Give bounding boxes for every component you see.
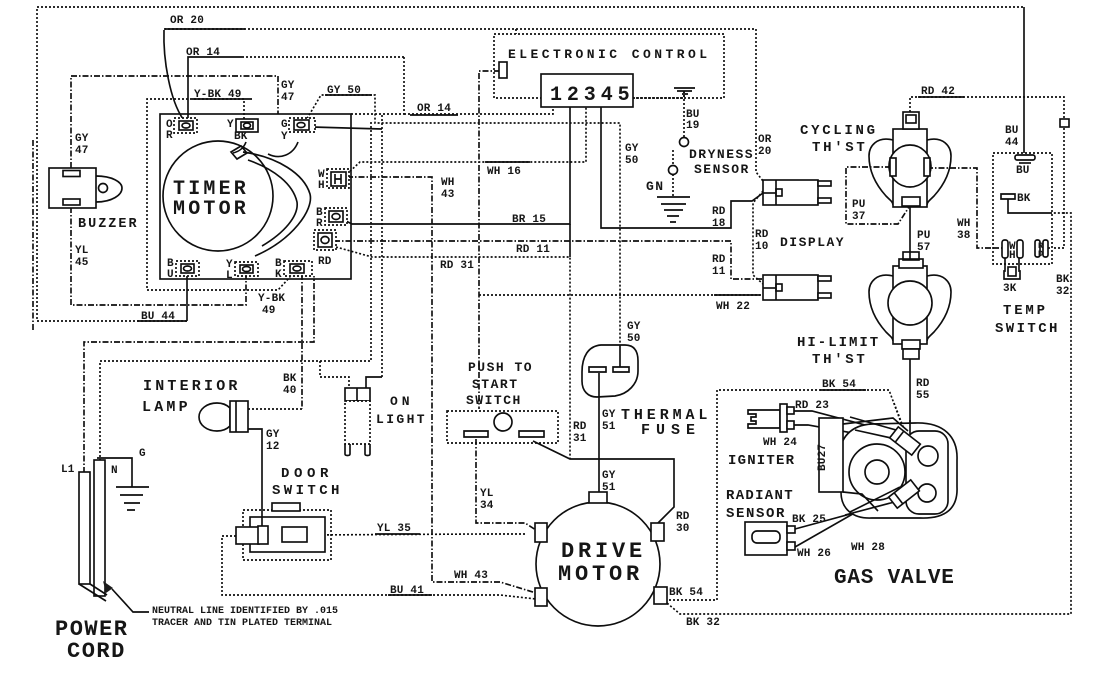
wire BK 25 radiant sensor to gas valve xyxy=(795,500,902,529)
terminal O-R xyxy=(166,118,197,142)
cycling thermostat xyxy=(800,112,951,207)
svg-text:GN: GN xyxy=(646,179,665,194)
svg-text:WH 26: WH 26 xyxy=(797,548,831,560)
svg-text:TH'ST: TH'ST xyxy=(812,140,868,156)
gas valve terminal lower xyxy=(889,480,920,508)
svg-text:BK 25: BK 25 xyxy=(792,514,826,526)
wire GY 51 fuse to motor xyxy=(598,371,600,493)
terminal Y-BK xyxy=(227,119,258,143)
hi-limit thermostat xyxy=(797,252,951,368)
svg-text:SENSOR: SENSOR xyxy=(726,506,786,522)
svg-text:GY: GY xyxy=(75,133,89,145)
temp switch xyxy=(993,153,1060,337)
svg-text:G: G xyxy=(281,119,288,131)
wire RD 55 hi-limit to gas valve xyxy=(909,358,911,431)
wire GY 47 from buzzer top xyxy=(71,76,278,168)
svg-text:BU27: BU27 xyxy=(817,444,829,471)
svg-text:Y-BK: Y-BK xyxy=(258,293,285,305)
svg-text:RD: RD xyxy=(712,206,726,218)
svg-text:MOTOR: MOTOR xyxy=(558,562,643,587)
terminal B-K xyxy=(275,258,312,281)
svg-text:DRIVE: DRIVE xyxy=(561,539,646,564)
svg-text:DISPLAY: DISPLAY xyxy=(780,235,845,250)
wire to on-light right riser xyxy=(381,115,383,377)
wire RD 11 timer to display xyxy=(334,241,763,279)
BU27 label box xyxy=(819,418,843,492)
svg-text:19: 19 xyxy=(686,120,700,132)
wire PU 37 cycling xyxy=(846,167,909,224)
svg-text:OR 20: OR 20 xyxy=(170,15,204,27)
wire YL 35 door switch to motor xyxy=(307,534,525,535)
svg-text:L: L xyxy=(226,270,233,282)
wire RD 55 into valve xyxy=(909,420,911,434)
svg-text:RD: RD xyxy=(573,421,587,433)
svg-text:31: 31 xyxy=(573,433,587,445)
svg-text:10: 10 xyxy=(755,241,769,253)
svg-text:SENSOR: SENSOR xyxy=(694,162,750,177)
wire BR 15 timer to pin 2 xyxy=(344,107,570,224)
svg-text:49: 49 xyxy=(262,305,276,317)
svg-text:47: 47 xyxy=(281,92,295,104)
svg-text:TH'ST: TH'ST xyxy=(812,352,868,368)
drive motor xyxy=(535,492,667,626)
wire RD 10 display jumper xyxy=(753,191,763,284)
wire WH 16 timer to pin 3 xyxy=(347,107,586,174)
svg-text:GY: GY xyxy=(266,429,280,441)
svg-text:RD 31: RD 31 xyxy=(440,260,474,272)
wire YL 34 push-start to motor xyxy=(476,439,536,530)
radiant sensor xyxy=(726,488,795,555)
svg-text:IGNITER: IGNITER xyxy=(728,453,795,469)
svg-text:WH: WH xyxy=(957,218,971,230)
svg-text:NEUTRAL LINE IDENTIFIED BY .01: NEUTRAL LINE IDENTIFIED BY .015 xyxy=(152,606,338,617)
electronic control pins box xyxy=(541,74,633,107)
svg-text:LAMP: LAMP xyxy=(142,399,191,416)
wire RD 42 into R-D pins xyxy=(1048,247,1052,249)
svg-text:D: D xyxy=(1038,249,1043,259)
svg-text:H: H xyxy=(1009,250,1016,262)
svg-text:OR: OR xyxy=(758,134,772,146)
svg-text:YL: YL xyxy=(480,488,494,500)
svg-text:RD 23: RD 23 xyxy=(795,400,829,412)
wire OR 20 top run xyxy=(164,29,763,181)
wire GY 51 inside fuse xyxy=(598,373,600,397)
wire OR 20 riser into electronic control xyxy=(515,29,517,34)
svg-text:RD: RD xyxy=(318,256,332,268)
terminal B-U xyxy=(167,258,199,281)
wire GY 50 from timer G-Y terminal xyxy=(305,95,620,368)
wire BU 41 door switch to motor xyxy=(222,536,536,599)
wire RD 18 pin 4 to display xyxy=(601,107,763,228)
svg-text:MOTOR: MOTOR xyxy=(173,198,249,221)
temp switch 3K terminal xyxy=(1004,258,1020,279)
terminal G-Y xyxy=(281,118,315,143)
timer cam follower xyxy=(231,146,247,159)
gas valve coil housing lines xyxy=(843,418,908,431)
timer wiper curve from Y-BK xyxy=(233,142,246,153)
wire OR 14 riser from timer xyxy=(188,57,242,119)
svg-text:BU: BU xyxy=(1016,165,1030,177)
svg-text:DRYNESS: DRYNESS xyxy=(689,147,754,162)
wire RD 30 push-start to drive motor xyxy=(533,441,674,523)
wire RD 31 timer to push-start xyxy=(336,247,570,459)
timer cam xyxy=(243,152,310,256)
svg-text:3K: 3K xyxy=(1003,283,1017,295)
display connector upper xyxy=(763,180,831,205)
wire RD 23 igniter to gas valve xyxy=(794,411,899,434)
on light xyxy=(345,388,427,456)
svg-text:BUZZER: BUZZER xyxy=(78,217,139,232)
svg-text:LIGHT: LIGHT xyxy=(376,412,427,427)
gas valve terminal upper xyxy=(890,427,921,455)
svg-text:OR 14: OR 14 xyxy=(417,103,451,115)
push to start switch xyxy=(447,360,558,443)
svg-text:WH 16: WH 16 xyxy=(487,166,521,178)
wire GY 50 inside fuse xyxy=(619,345,621,367)
wire junction pin2 riser xyxy=(569,224,571,257)
interior lamp xyxy=(142,378,248,432)
svg-text:20: 20 xyxy=(758,146,772,158)
dryness sensor xyxy=(646,88,754,196)
svg-text:32: 32 xyxy=(1056,286,1070,298)
svg-text:50: 50 xyxy=(625,155,639,167)
svg-text:L1: L1 xyxy=(61,464,75,476)
svg-text:HI-LIMIT: HI-LIMIT xyxy=(797,335,880,351)
svg-text:WH: WH xyxy=(441,177,455,189)
svg-text:WH 43: WH 43 xyxy=(454,570,488,582)
thermal fuse xyxy=(582,345,711,439)
svg-text:RD: RD xyxy=(712,254,726,266)
display connector lower xyxy=(763,275,831,300)
svg-text:CYCLING: CYCLING xyxy=(800,123,878,139)
electronic control left pin xyxy=(499,62,507,78)
gas valve xyxy=(817,403,957,590)
wire WH 38 into W-H pins xyxy=(993,247,1002,249)
terminal W-H xyxy=(318,169,349,192)
wire left dash-dot stub xyxy=(32,140,34,330)
svg-text:40: 40 xyxy=(283,385,297,397)
svg-text:SWITCH: SWITCH xyxy=(995,321,1060,337)
svg-text:ON: ON xyxy=(390,394,414,409)
svg-text:55: 55 xyxy=(916,390,930,402)
power cord xyxy=(55,448,338,664)
wire RD 23 over valve xyxy=(850,417,903,432)
svg-text:WH 28: WH 28 xyxy=(851,542,885,554)
wire BK 32 motor to temp switch xyxy=(661,199,1071,614)
wire RD 42 xyxy=(910,97,1064,248)
svg-text:BK: BK xyxy=(1017,193,1031,205)
wire WH 24 over valve xyxy=(855,430,900,440)
wire BK 54 into valve xyxy=(894,403,904,429)
wire pin 5 to dryness sensor xyxy=(633,91,684,98)
svg-text:R: R xyxy=(166,130,173,142)
timer wiper curve from G-Y xyxy=(268,142,298,157)
wire WH 26 over valve xyxy=(850,487,900,512)
svg-text:BR 15: BR 15 xyxy=(512,214,546,226)
wire WH 38 cycling to temp switch xyxy=(927,168,1002,248)
igniter xyxy=(728,404,795,469)
svg-text:RD 11: RD 11 xyxy=(516,244,550,256)
temp switch W-H pins xyxy=(1002,240,1008,258)
svg-text:GY: GY xyxy=(281,80,295,92)
svg-text:N: N xyxy=(111,465,118,477)
svg-text:FUSE: FUSE xyxy=(641,422,701,439)
svg-text:BK 32: BK 32 xyxy=(686,617,720,629)
buzzer xyxy=(49,168,139,232)
svg-text:H: H xyxy=(318,180,325,192)
svg-text:RADIANT: RADIANT xyxy=(726,488,794,504)
svg-text:BK: BK xyxy=(283,373,297,385)
terminal RD xyxy=(314,230,336,268)
svg-text:TRACER AND TIN PLATED TERMINAL: TRACER AND TIN PLATED TERMINAL xyxy=(152,618,332,629)
svg-text:WH 22: WH 22 xyxy=(716,301,750,313)
wire L1 riser xyxy=(84,276,314,473)
svg-text:12345: 12345 xyxy=(550,84,635,107)
wire Y-BK 49 dashed loop around timer xyxy=(147,99,290,290)
svg-text:GY: GY xyxy=(625,143,639,155)
wire WH 24 igniter to gas valve xyxy=(794,425,897,441)
svg-text:PUSH TO: PUSH TO xyxy=(468,360,533,375)
wire on-light left feed xyxy=(320,361,349,388)
svg-text:RD: RD xyxy=(676,511,690,523)
wire BU 44 timer B/U riser xyxy=(186,274,188,321)
wire WH 43 timer to drive motor xyxy=(347,177,536,593)
wire BK 25 over valve xyxy=(845,500,902,515)
svg-text:18: 18 xyxy=(712,218,726,230)
svg-text:ELECTRONIC CONTROL: ELECTRONIC CONTROL xyxy=(508,47,711,62)
svg-text:43: 43 xyxy=(441,189,455,201)
wire from electronic control left pin down xyxy=(479,71,500,409)
svg-text:GY: GY xyxy=(627,321,641,333)
svg-text:BK 54: BK 54 xyxy=(669,587,703,599)
svg-text:WH 24: WH 24 xyxy=(763,437,797,449)
svg-text:11: 11 xyxy=(712,266,726,278)
svg-text:45: 45 xyxy=(75,257,89,269)
wire BK inside temp switch xyxy=(1008,199,1052,213)
svg-text:TEMP: TEMP xyxy=(1003,303,1048,319)
svg-text:GAS VALVE: GAS VALVE xyxy=(834,567,955,590)
svg-text:OR 14: OR 14 xyxy=(186,47,220,59)
border outer dotted frame top and left xyxy=(33,7,1024,330)
svg-text:RD: RD xyxy=(916,378,930,390)
svg-text:SWITCH: SWITCH xyxy=(466,393,522,408)
wire stub timer box to riser xyxy=(312,127,382,129)
wire WH 26 radiant sensor to gas valve xyxy=(795,487,900,547)
svg-text:K: K xyxy=(275,269,282,281)
right edge connector tick xyxy=(1060,119,1069,127)
wire GY 12 into switch xyxy=(261,517,263,528)
svg-text:Y: Y xyxy=(227,119,234,131)
svg-text:CORD: CORD xyxy=(67,639,126,664)
wire lamp to BK40 xyxy=(248,408,302,410)
svg-text:Y: Y xyxy=(281,131,288,143)
wire WH 22 to display lower xyxy=(479,294,763,296)
wire BU 44 right riser to temp switch xyxy=(1023,7,1025,156)
svg-text:START: START xyxy=(472,377,519,392)
svg-text:34: 34 xyxy=(480,500,494,512)
wire BK 40 lamp riser xyxy=(301,274,303,409)
terminal B-R xyxy=(316,207,347,230)
wire N riser xyxy=(100,122,371,461)
svg-text:R: R xyxy=(316,218,323,230)
svg-text:57: 57 xyxy=(917,242,931,254)
svg-text:51: 51 xyxy=(602,421,616,433)
temp switch R-D pins xyxy=(1035,240,1040,257)
timer motor circle xyxy=(163,141,273,251)
terminal Y-L xyxy=(226,259,258,282)
svg-text:12: 12 xyxy=(266,441,280,453)
svg-text:U: U xyxy=(167,269,174,281)
wire on-light right feed xyxy=(366,377,382,388)
electronic control U1 xyxy=(494,34,724,107)
svg-text:RD: RD xyxy=(755,229,769,241)
svg-text:YL: YL xyxy=(75,245,89,257)
svg-text:PU: PU xyxy=(852,199,866,211)
wire BK 54 motor to gas valve xyxy=(665,390,903,600)
ground GN xyxy=(657,197,690,222)
svg-text:PU: PU xyxy=(917,230,931,242)
svg-text:30: 30 xyxy=(676,523,690,535)
wire YL 45 buzzer to timer Y-L xyxy=(71,207,246,305)
svg-text:SWITCH: SWITCH xyxy=(272,483,343,499)
svg-text:47: 47 xyxy=(75,145,89,157)
svg-text:BU: BU xyxy=(1005,125,1019,137)
timer motor box xyxy=(160,114,351,279)
door switch xyxy=(236,466,343,560)
wire OR 14 run to pin 1 xyxy=(351,57,404,114)
svg-text:DOOR: DOOR xyxy=(281,466,333,482)
svg-text:G: G xyxy=(139,448,146,460)
wire GY 12 lamp to door switch xyxy=(248,429,262,530)
svg-text:44: 44 xyxy=(1005,137,1019,149)
svg-text:INTERIOR: INTERIOR xyxy=(143,378,241,395)
svg-text:37: 37 xyxy=(852,211,866,223)
svg-text:51: 51 xyxy=(602,482,616,494)
svg-text:38: 38 xyxy=(957,230,971,242)
svg-text:50: 50 xyxy=(627,333,641,345)
svg-text:BK: BK xyxy=(1056,274,1070,286)
svg-text:GY: GY xyxy=(602,470,616,482)
wire OR 20 from timer O-R terminal curve xyxy=(164,30,183,119)
wire PU 57 cycling to hi-limit xyxy=(909,207,911,261)
svg-text:GY: GY xyxy=(602,409,616,421)
svg-text:BK: BK xyxy=(234,131,248,143)
